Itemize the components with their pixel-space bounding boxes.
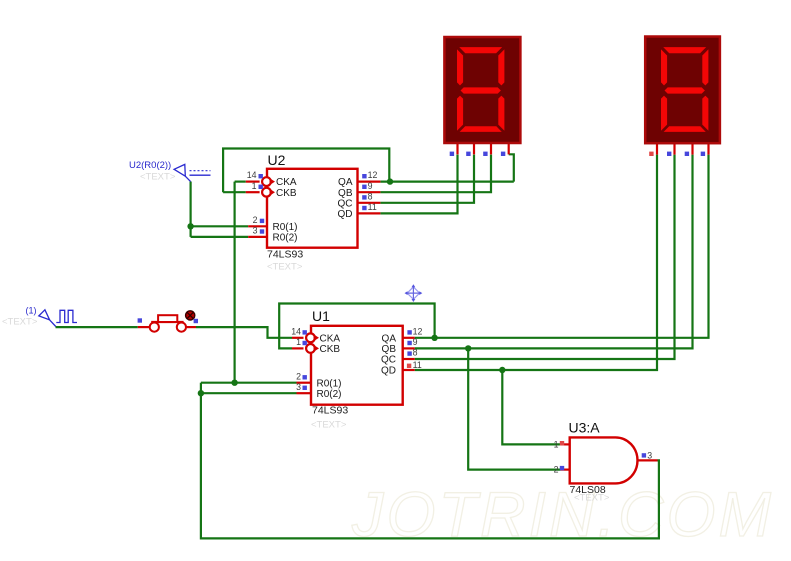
svg-text:<TEXT>: <TEXT>: [140, 172, 176, 183]
svg-text:12: 12: [368, 170, 378, 180]
svg-text:1: 1: [252, 181, 257, 191]
svg-text:QB: QB: [338, 188, 353, 199]
svg-text:<TEXT>: <TEXT>: [267, 262, 303, 273]
svg-text:(1): (1): [26, 306, 37, 316]
svg-text:14: 14: [291, 326, 301, 336]
svg-text:1: 1: [554, 439, 559, 449]
svg-text:R0(2): R0(2): [317, 389, 342, 400]
svg-text:U3:A: U3:A: [569, 420, 601, 436]
svg-text:CKB: CKB: [276, 188, 297, 199]
svg-text:QB: QB: [382, 344, 397, 355]
svg-text:3: 3: [253, 226, 258, 236]
svg-text:QA: QA: [382, 333, 397, 344]
svg-text:11: 11: [368, 202, 377, 212]
svg-text:R0(2): R0(2): [273, 233, 298, 244]
svg-text:<TEXT>: <TEXT>: [2, 317, 38, 328]
svg-text:9: 9: [413, 337, 418, 347]
svg-text:3: 3: [296, 382, 301, 392]
svg-text:QD: QD: [338, 209, 353, 220]
svg-text:CKA: CKA: [320, 333, 341, 344]
svg-text:U2: U2: [268, 152, 286, 168]
svg-text:11: 11: [413, 360, 422, 370]
svg-text:12: 12: [413, 326, 423, 336]
svg-text:9: 9: [368, 181, 373, 191]
svg-text:1: 1: [296, 337, 301, 347]
svg-text:QD: QD: [381, 366, 396, 377]
svg-text:U1: U1: [312, 308, 330, 324]
svg-text:2: 2: [554, 465, 559, 475]
svg-text:R0(1): R0(1): [273, 222, 298, 233]
svg-text:2: 2: [253, 215, 258, 225]
svg-text:3: 3: [647, 451, 652, 461]
svg-text:QA: QA: [338, 177, 353, 188]
svg-text:CKB: CKB: [320, 344, 341, 355]
svg-text:U2(R0(2)): U2(R0(2)): [129, 160, 171, 171]
svg-text:74LS93: 74LS93: [312, 405, 348, 417]
svg-text:8: 8: [413, 348, 418, 358]
svg-text:74LS93: 74LS93: [267, 249, 303, 261]
svg-text:CKA: CKA: [276, 177, 297, 188]
svg-text:74LS08: 74LS08: [570, 484, 606, 496]
svg-text:8: 8: [368, 191, 373, 201]
svg-text:14: 14: [247, 170, 257, 180]
svg-text:<TEXT>: <TEXT>: [311, 420, 347, 431]
svg-text:2: 2: [296, 371, 301, 381]
svg-text:QC: QC: [381, 355, 396, 366]
svg-text:R0(1): R0(1): [317, 378, 342, 389]
svg-text:QC: QC: [338, 198, 353, 209]
